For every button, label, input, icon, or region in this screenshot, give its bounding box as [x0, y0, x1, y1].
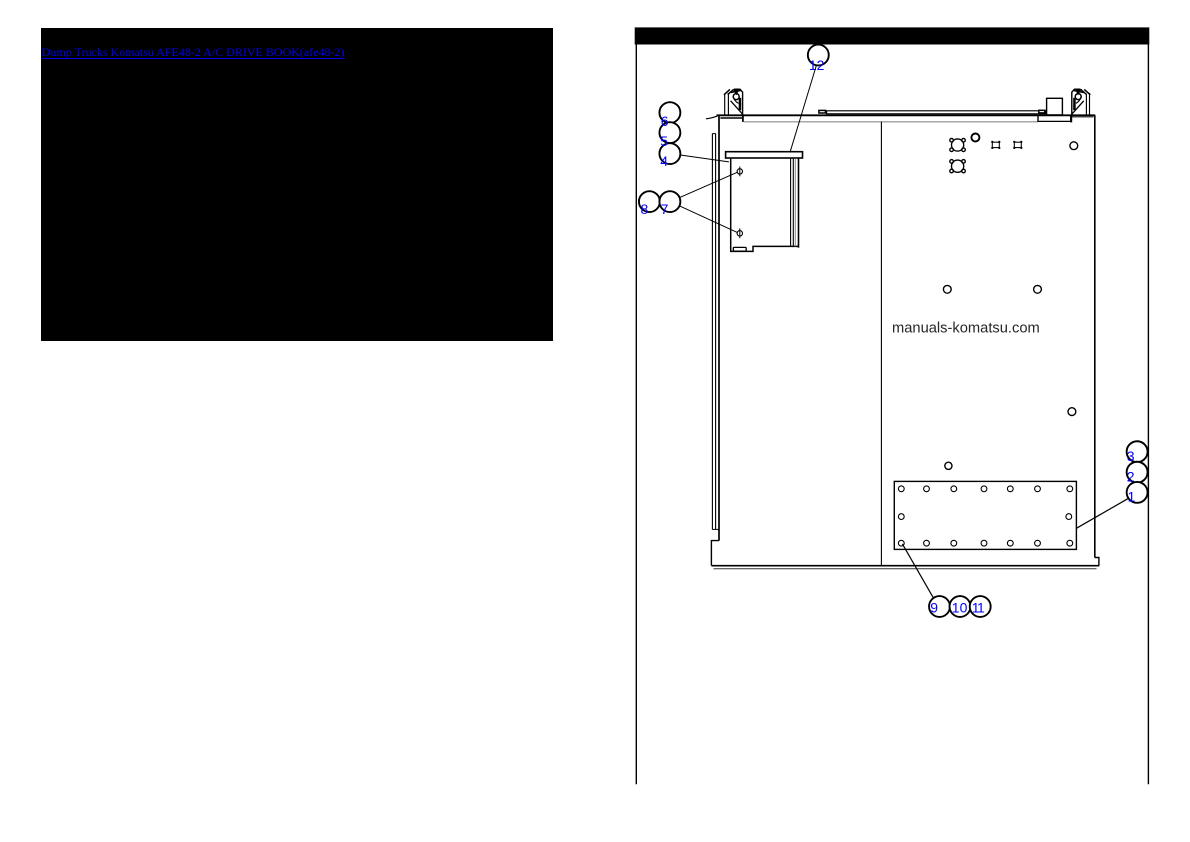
leader line 4	[680, 155, 729, 162]
callout circle 8	[639, 191, 660, 212]
callout circle 4	[659, 143, 680, 164]
svg-text:4: 4	[660, 153, 668, 169]
page right border	[1147, 45, 1149, 785]
band tick 2	[1070, 116, 1072, 123]
screw symbol upper	[737, 167, 742, 177]
leader line 7 lower	[680, 206, 738, 233]
svg-text:11: 11	[972, 599, 985, 615]
clamp symbol small A	[991, 141, 1000, 149]
mounting bracket plate	[726, 152, 803, 158]
connector plate holes	[898, 486, 1072, 546]
connector plate	[894, 481, 1076, 549]
svg-text:9: 9	[930, 599, 938, 615]
panel top edge	[706, 116, 718, 119]
hole top right	[1070, 142, 1078, 150]
hole lower right	[1068, 408, 1076, 416]
bottom bar lower line	[714, 568, 1097, 570]
clamp symbol small B	[1013, 141, 1022, 149]
svg-text:10: 10	[952, 599, 968, 615]
strip left tab	[819, 110, 826, 113]
top strip	[827, 111, 1046, 114]
right foot step	[1095, 558, 1099, 566]
svg-text:2: 2	[1127, 468, 1135, 484]
hole above connector plate	[945, 462, 952, 469]
screw symbol lower	[737, 228, 742, 238]
strip right tab	[1039, 110, 1045, 113]
svg-text:5: 5	[660, 133, 668, 149]
callout circle 10	[950, 596, 971, 617]
sub-box hinge column 3 (gray)	[794, 158, 796, 246]
svg-text:3: 3	[1127, 448, 1135, 464]
top band line (gray)	[744, 121, 1038, 123]
black thumbnail box	[41, 28, 554, 341]
clamp symbol big B	[950, 160, 966, 173]
callout circle 9	[929, 596, 950, 617]
callout circle 11	[970, 596, 991, 617]
sub-box bottom slot	[733, 247, 746, 251]
left foot step	[711, 541, 719, 566]
leader line 7 upper	[680, 172, 738, 197]
callout circle 1	[1127, 482, 1148, 503]
bottom bar top line	[711, 565, 1099, 567]
band line dark	[1038, 120, 1071, 122]
left flange line outer	[711, 134, 713, 530]
clamp symbol big A	[950, 138, 966, 151]
callout circle 6	[659, 102, 680, 123]
svg-text:6: 6	[661, 113, 669, 129]
svg-text:12: 12	[809, 57, 825, 73]
callout circle 3	[1127, 441, 1148, 462]
hole mid right	[1034, 285, 1042, 293]
leader line 12	[790, 66, 816, 152]
document link text	[42, 45, 345, 60]
small top-right box	[1047, 98, 1063, 115]
top black title bar	[635, 27, 1150, 44]
svg-text:1: 1	[1128, 489, 1136, 505]
callout circle 12	[808, 45, 829, 66]
band tick 1	[1037, 116, 1039, 123]
svg-text:manuals-komatsu.com: manuals-komatsu.com	[892, 320, 1040, 336]
leader line 1	[1077, 498, 1129, 528]
sub-box hinge column 1	[790, 158, 792, 246]
sub-box right edge	[798, 158, 800, 247]
flange bottom closure	[712, 528, 719, 530]
page left border	[635, 45, 637, 785]
left flange line inner	[715, 134, 717, 530]
left hinge	[724, 89, 743, 114]
panel left edge	[718, 115, 720, 540]
under-hinge line left	[720, 117, 742, 119]
thick small circle	[971, 134, 979, 142]
leader line 9	[902, 544, 934, 600]
hinge tick left	[742, 115, 744, 122]
sub-box outline	[731, 158, 799, 251]
svg-text:8: 8	[641, 201, 649, 217]
svg-text:7: 7	[661, 201, 669, 217]
hole mid left	[943, 285, 951, 293]
flange top closure	[712, 133, 716, 135]
central divider	[880, 122, 882, 566]
thin line under right hinge	[1072, 116, 1094, 118]
right hinge	[1072, 89, 1091, 114]
callout circle 7	[659, 191, 680, 212]
sub-box hinge column 2	[792, 158, 794, 246]
panel right edge	[1094, 115, 1096, 557]
callout circle 2	[1127, 462, 1148, 483]
callout circle 5	[659, 122, 680, 143]
